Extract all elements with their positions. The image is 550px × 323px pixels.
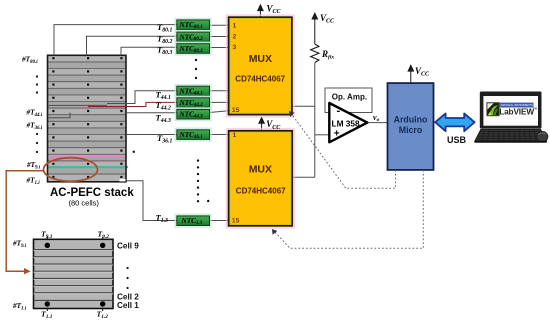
svg-text:T1.3: T1.3 <box>156 213 169 225</box>
svg-text:#T36.i: #T36.i <box>26 122 43 131</box>
svg-text:MUX: MUX <box>249 164 272 176</box>
svg-text:T44.3: T44.3 <box>156 113 171 125</box>
svg-text:vo: vo <box>373 113 380 123</box>
svg-text:Op. Amp.: Op. Amp. <box>332 93 367 102</box>
svg-text:AC-PEFC stack: AC-PEFC stack <box>50 187 134 199</box>
svg-text:Cell 1: Cell 1 <box>117 301 139 310</box>
svg-text:MUX: MUX <box>249 53 272 65</box>
svg-text:T44.2: T44.2 <box>156 100 171 112</box>
svg-text:USB: USB <box>447 135 467 145</box>
svg-text:#T1.i: #T1.i <box>26 177 41 186</box>
svg-text:CD74HC4067: CD74HC4067 <box>236 187 286 196</box>
svg-text:LabVIEW: LabVIEW <box>499 107 534 116</box>
svg-text:#T9.i: #T9.i <box>12 240 27 249</box>
svg-text:T1.1: T1.1 <box>41 310 53 320</box>
svg-text:T80.3: T80.3 <box>157 45 172 57</box>
svg-text:VCC: VCC <box>266 119 281 131</box>
svg-text:Cell 9: Cell 9 <box>117 242 139 251</box>
svg-text:1: 1 <box>233 132 237 139</box>
svg-text:#T1.i: #T1.i <box>12 302 27 311</box>
svg-text:2: 2 <box>233 34 237 41</box>
svg-text:T80.1: T80.1 <box>157 22 172 34</box>
svg-text:VCC: VCC <box>267 4 282 16</box>
svg-text:LM 358: LM 358 <box>332 118 361 128</box>
svg-text:15: 15 <box>232 218 240 225</box>
svg-text:+: + <box>334 129 340 140</box>
svg-text:#T9.i: #T9.i <box>26 161 41 170</box>
svg-text:T9.2: T9.2 <box>98 229 110 239</box>
svg-text:Arduino: Arduino <box>394 115 428 125</box>
svg-text:#T80.i: #T80.i <box>21 56 38 65</box>
svg-text:#T44.i: #T44.i <box>26 109 43 118</box>
svg-text:-: - <box>337 105 341 117</box>
svg-text:1: 1 <box>233 23 237 30</box>
svg-text:T80.2: T80.2 <box>157 34 172 46</box>
svg-text:15: 15 <box>232 107 240 114</box>
svg-text:T9.1: T9.1 <box>41 229 53 239</box>
svg-text:T1.2: T1.2 <box>97 310 109 320</box>
svg-text:Rfix: Rfix <box>321 49 334 61</box>
svg-text:Micro: Micro <box>399 125 423 135</box>
svg-text:VCC: VCC <box>415 66 430 78</box>
svg-text:TM: TM <box>533 107 538 111</box>
svg-text:CD74HC4067: CD74HC4067 <box>235 75 285 84</box>
svg-text:VCC: VCC <box>320 13 335 25</box>
svg-text:3: 3 <box>233 44 237 51</box>
svg-text:(80 cells): (80 cells) <box>69 199 100 208</box>
